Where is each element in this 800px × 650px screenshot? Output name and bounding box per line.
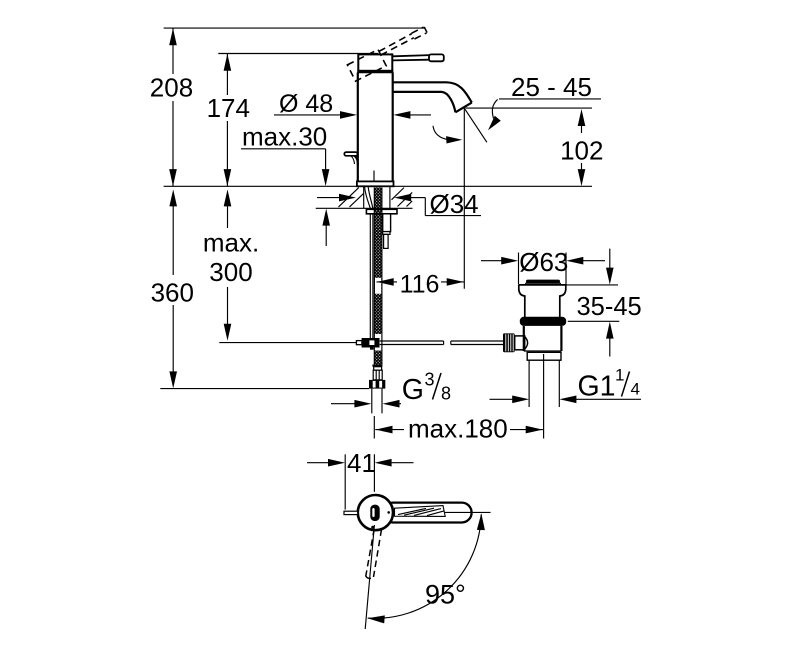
label Ø63 bbox=[519, 247, 568, 277]
faucet lever dashed raised position bbox=[347, 26, 432, 81]
fixing stud bbox=[383, 214, 391, 249]
dimension 102 bbox=[578, 109, 586, 186]
dimension max.180 bbox=[375, 426, 543, 434]
pop-up rod inside body bbox=[373, 171, 375, 187]
360 bottom reference line bbox=[160, 388, 369, 390]
label 300 bbox=[209, 257, 252, 287]
25-45 upper line bbox=[499, 98, 601, 100]
svg-text:208: 208 bbox=[150, 73, 193, 103]
drain body bbox=[524, 326, 562, 351]
svg-text:max.: max. bbox=[203, 228, 259, 258]
dimension 208 vertical line bbox=[169, 28, 177, 186]
svg-text:360: 360 bbox=[151, 278, 194, 308]
countertop hatching right bbox=[392, 188, 413, 207]
svg-text:300: 300 bbox=[209, 257, 252, 287]
top view horizontal reference line bbox=[445, 511, 491, 513]
label G1 1/4 bbox=[578, 366, 640, 403]
35-45 upper reference line bbox=[567, 284, 619, 286]
G3/8 hex nut bbox=[369, 380, 385, 389]
drain knurled knob bbox=[503, 333, 515, 352]
max.30 lower arrow bbox=[322, 209, 330, 246]
svg-text:116: 116 bbox=[400, 270, 440, 298]
dimension G1 1/4 bbox=[490, 396, 642, 404]
shank hole walls bbox=[364, 186, 390, 208]
label max.30 bbox=[242, 121, 327, 151]
top view 41 extension lines bbox=[345, 454, 374, 509]
dimension Ø34 leader bbox=[317, 194, 481, 216]
spout vertical reference line bbox=[463, 108, 465, 289]
svg-text:41: 41 bbox=[347, 448, 376, 478]
dimension max.300 vertical line bbox=[224, 189, 232, 340]
dimension 360 vertical line bbox=[169, 189, 177, 388]
label 25 - 45 bbox=[511, 72, 592, 102]
svg-text:8: 8 bbox=[441, 384, 451, 404]
35-45 lower reference line bbox=[568, 320, 620, 322]
95 degree arc bbox=[368, 513, 485, 623]
dimension G3/8 bbox=[331, 400, 401, 408]
pop-up rod sleeve bbox=[356, 341, 362, 345]
label 35-45 bbox=[577, 293, 642, 321]
hose white gap at 116 arrow bbox=[375, 278, 381, 294]
escutcheon base bbox=[357, 181, 394, 186]
drain plug cap bbox=[526, 280, 561, 285]
drain centerline extension bbox=[543, 354, 545, 439]
max.300 reference line to rod bbox=[219, 342, 356, 344]
25-45 lower line / 102 top reference bbox=[466, 107, 593, 109]
flow direction curved arrow bbox=[433, 126, 462, 144]
faucet spout bbox=[393, 82, 472, 112]
95 degree extension line bbox=[365, 525, 374, 629]
dimension Ø63 bbox=[481, 257, 605, 265]
dimension 208 top reference line bbox=[164, 27, 425, 29]
faucet body bbox=[358, 72, 393, 181]
drain knob stem bbox=[515, 336, 528, 350]
svg-text:1: 1 bbox=[615, 366, 624, 385]
horizontal pop-up rod right part bbox=[451, 341, 504, 345]
top view handle bbox=[383, 503, 472, 523]
horizontal pop-up rod left part bbox=[380, 341, 444, 345]
label 174 bbox=[207, 93, 250, 123]
label 41 bbox=[347, 448, 376, 478]
pop-up rod below counter bbox=[370, 214, 373, 339]
svg-text:174: 174 bbox=[207, 93, 250, 123]
mounting washer bbox=[366, 209, 397, 214]
drain flange bbox=[519, 285, 566, 317]
flexible hose braided bbox=[374, 188, 382, 365]
pop-up rod curve in shank bbox=[365, 187, 373, 208]
drain tailpipe bbox=[529, 360, 559, 407]
25-45 curved leader bbox=[488, 99, 501, 130]
svg-text:95°: 95° bbox=[425, 580, 466, 610]
35-45 upper arrow bbox=[606, 249, 614, 285]
svg-text:35-45: 35-45 bbox=[577, 293, 642, 321]
svg-text:G: G bbox=[402, 374, 424, 406]
top view small dots bbox=[371, 511, 390, 529]
aerator flow axis line bbox=[464, 107, 487, 142]
drain Ø63 extension lines bbox=[519, 253, 567, 285]
label G3/8 bbox=[402, 370, 451, 407]
svg-text:102: 102 bbox=[560, 136, 603, 166]
svg-text:25 - 45: 25 - 45 bbox=[511, 72, 592, 102]
pop-up rod clevis bbox=[362, 338, 380, 350]
svg-text:max.180: max.180 bbox=[408, 413, 508, 443]
G3/8 pipe end bbox=[372, 389, 382, 414]
svg-text:G1: G1 bbox=[578, 371, 616, 403]
label max. bbox=[203, 228, 259, 258]
drain rubber seal bbox=[520, 317, 566, 326]
label Ø48 bbox=[279, 90, 333, 118]
top view body circle bbox=[358, 495, 393, 530]
label 116 bbox=[400, 270, 440, 298]
hose ferrule bbox=[372, 365, 382, 380]
svg-text:3: 3 bbox=[425, 370, 435, 390]
dimension 41 bbox=[307, 459, 414, 467]
faucet cap bbox=[357, 54, 393, 71]
pop-up rod knob at body bbox=[344, 152, 358, 166]
countertop bottom line bbox=[316, 207, 413, 209]
top view handle inner detail bbox=[395, 506, 446, 517]
top view rod stub bbox=[344, 511, 358, 514]
svg-text:Ø63: Ø63 bbox=[519, 247, 568, 277]
label Ø34 bbox=[430, 189, 479, 219]
dimension 174 top reference line bbox=[218, 53, 378, 55]
svg-text:Ø 48: Ø 48 bbox=[279, 90, 333, 118]
label 95 degrees bbox=[425, 580, 466, 610]
top view cartridge slot bbox=[370, 505, 379, 521]
35-45 lower arrow bbox=[606, 322, 614, 357]
svg-text:4: 4 bbox=[631, 380, 640, 399]
faucet lever solid bbox=[393, 54, 444, 61]
svg-text:max.30: max.30 bbox=[242, 121, 327, 151]
countertop hatching left bbox=[339, 188, 364, 207]
countertop top line bbox=[164, 185, 592, 187]
svg-text:Ø34: Ø34 bbox=[430, 189, 479, 219]
label max.180 bbox=[408, 413, 508, 443]
drain slip ring bbox=[527, 352, 561, 360]
label 360 bbox=[151, 278, 194, 308]
dimension Ø48 bbox=[274, 111, 431, 119]
label 102 bbox=[560, 136, 603, 166]
label 208 bbox=[150, 73, 193, 103]
max.30 leader line bbox=[241, 149, 329, 186]
dimension 174 vertical line bbox=[224, 54, 232, 187]
max.180 left extension line bbox=[373, 416, 375, 439]
dimension 116 bbox=[377, 278, 464, 286]
top view dashed handle rotated bbox=[366, 529, 382, 578]
